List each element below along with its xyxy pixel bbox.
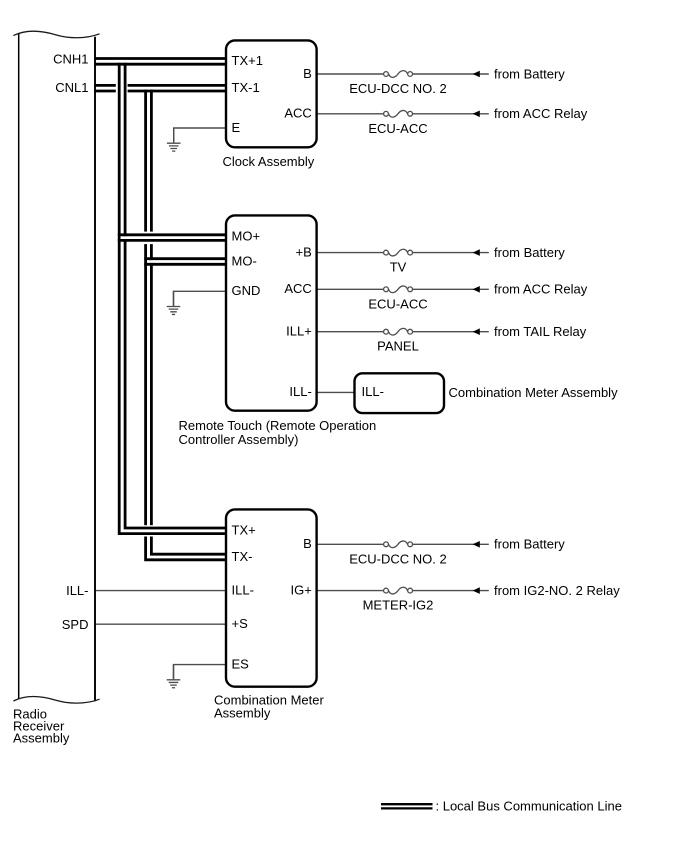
svg-text:IG+: IG+ bbox=[290, 582, 311, 597]
svg-text:+S: +S bbox=[232, 616, 249, 631]
svg-text:from IG2-NO. 2 Relay: from IG2-NO. 2 Relay bbox=[494, 583, 620, 598]
svg-text:TX-1: TX-1 bbox=[232, 80, 260, 95]
svg-text:E: E bbox=[232, 120, 241, 135]
svg-text:+B: +B bbox=[296, 244, 312, 259]
svg-text:ILL-: ILL- bbox=[66, 583, 88, 598]
svg-text:TV: TV bbox=[390, 260, 407, 275]
svg-text:Assembly: Assembly bbox=[214, 706, 271, 721]
svg-text:from Battery: from Battery bbox=[494, 245, 565, 260]
svg-text:ILL-: ILL- bbox=[362, 384, 384, 399]
svg-text:Combination Meter Assembly: Combination Meter Assembly bbox=[449, 385, 619, 400]
svg-text:ILL-: ILL- bbox=[289, 384, 311, 399]
svg-text:TX+1: TX+1 bbox=[232, 53, 263, 68]
svg-text:Assembly: Assembly bbox=[13, 731, 70, 746]
svg-text:from ACC Relay: from ACC Relay bbox=[494, 106, 588, 121]
svg-text:TX-: TX- bbox=[232, 549, 253, 564]
svg-text:ACC: ACC bbox=[284, 106, 311, 121]
svg-text:ECU-DCC NO. 2: ECU-DCC NO. 2 bbox=[349, 551, 447, 566]
svg-text:B: B bbox=[303, 536, 312, 551]
svg-text:SPD: SPD bbox=[62, 617, 89, 632]
svg-text:Controller Assembly): Controller Assembly) bbox=[179, 432, 299, 447]
svg-text:from Battery: from Battery bbox=[494, 537, 565, 552]
svg-text:ECU-DCC NO. 2: ECU-DCC NO. 2 bbox=[349, 81, 447, 96]
svg-text:PANEL: PANEL bbox=[377, 339, 419, 354]
svg-text:: Local Bus Communication Line: : Local Bus Communication Line bbox=[436, 798, 622, 813]
svg-text:MO-: MO- bbox=[232, 253, 257, 268]
svg-text:ILL+: ILL+ bbox=[286, 324, 312, 339]
svg-text:from TAIL Relay: from TAIL Relay bbox=[494, 324, 587, 339]
svg-text:GND: GND bbox=[232, 283, 261, 298]
svg-text:Remote Touch (Remote Operation: Remote Touch (Remote Operation bbox=[179, 418, 377, 433]
svg-text:from ACC Relay: from ACC Relay bbox=[494, 282, 588, 297]
svg-text:CNH1: CNH1 bbox=[53, 51, 88, 66]
svg-text:from Battery: from Battery bbox=[494, 66, 565, 81]
svg-text:TX+: TX+ bbox=[232, 523, 256, 538]
svg-text:CNL1: CNL1 bbox=[55, 80, 88, 95]
svg-text:ACC: ACC bbox=[284, 281, 311, 296]
svg-text:Clock Assembly: Clock Assembly bbox=[223, 154, 315, 169]
svg-text:ECU-ACC: ECU-ACC bbox=[368, 121, 427, 136]
svg-text:ILL-: ILL- bbox=[232, 582, 254, 597]
svg-text:METER-IG2: METER-IG2 bbox=[363, 598, 434, 613]
svg-text:ES: ES bbox=[232, 656, 250, 671]
svg-text:MO+: MO+ bbox=[232, 229, 261, 244]
svg-text:ECU-ACC: ECU-ACC bbox=[368, 296, 427, 311]
svg-text:B: B bbox=[303, 66, 312, 81]
